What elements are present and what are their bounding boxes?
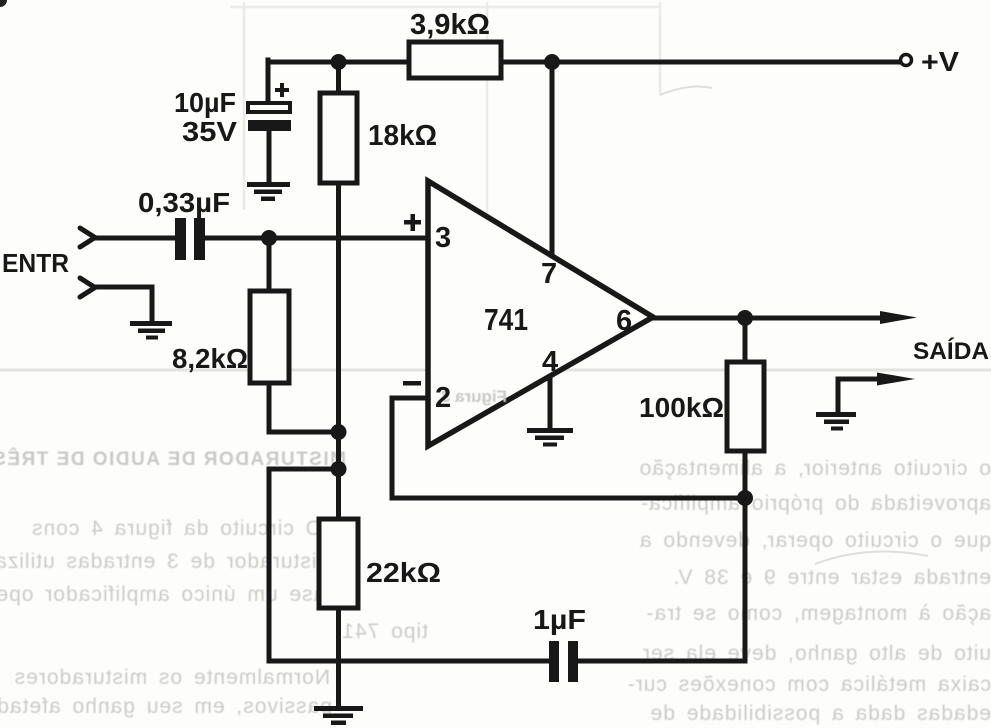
wire input2 to ground bbox=[94, 287, 152, 321]
wire 8.2k top lead bbox=[267, 238, 272, 291]
wire 1uF horizontal left bbox=[269, 659, 549, 664]
resistor 8.2k bbox=[172, 291, 289, 383]
bleed-through mirrored text left column bbox=[0, 448, 428, 718]
ground under 10uF bbox=[247, 182, 290, 201]
bleed-through figure lines (reverse page) bbox=[0, 2, 991, 370]
svg-text:741: 741 bbox=[484, 302, 528, 337]
wire 100k bottom lead bbox=[743, 451, 748, 498]
svg-text:tipo 741.: tipo 741. bbox=[334, 620, 428, 643]
svg-text:8,2kΩ: 8,2kΩ bbox=[172, 343, 248, 374]
wire output ground reference bbox=[838, 379, 880, 410]
svg-text:3,9kΩ: 3,9kΩ bbox=[410, 9, 490, 41]
svg-text:ação à montagem, como se tra-: ação à montagem, como se tra- bbox=[646, 602, 991, 625]
resistor 100k bbox=[639, 362, 764, 451]
node B dot bbox=[331, 461, 347, 477]
svg-text:aproveitada do próprio amplifi: aproveitada do próprio amplifica- bbox=[640, 492, 991, 515]
resistor 18k bbox=[320, 93, 437, 183]
capacitor 10uF electrolytic bbox=[174, 83, 291, 147]
faint scan scratches bbox=[660, 87, 928, 564]
wire input to pin3 bbox=[94, 236, 427, 241]
svg-text:ENTR: ENTR bbox=[2, 248, 69, 278]
pin 2 label bbox=[403, 381, 451, 414]
svg-text:entrada estar entre 9 e 38 V.: entrada estar entre 9 e 38 V. bbox=[673, 566, 991, 589]
svg-text:caixa metálica com conexões cu: caixa metálica com conexões cur- bbox=[627, 673, 991, 696]
svg-text:edadas dada a possibilidade de: edadas dada a possibilidade de bbox=[650, 702, 991, 725]
op-amp 741 bbox=[428, 181, 653, 446]
output arrow SAIDA bbox=[880, 311, 989, 365]
resistor 22k bbox=[319, 519, 441, 608]
svg-text:base um único amplificador ope: base um único amplificador opera bbox=[0, 583, 338, 606]
svg-text:+V: +V bbox=[921, 46, 959, 77]
pin 6 label bbox=[616, 305, 632, 337]
wire 100k top lead bbox=[743, 318, 748, 362]
wire pin7 drop bbox=[550, 62, 555, 257]
svg-text:3: 3 bbox=[435, 222, 451, 254]
bleed-through mirrored text right column bbox=[627, 457, 991, 725]
wire node B to left leg down bbox=[269, 469, 339, 661]
ground pin4 bbox=[527, 428, 573, 447]
wire output bbox=[655, 316, 885, 321]
svg-text:o circuito anterior, a aliment: o circuito anterior, a alimentação bbox=[639, 457, 991, 480]
node A dot bbox=[331, 424, 347, 440]
wire 22k bottom lead to ground bbox=[336, 608, 341, 706]
pin 7 label bbox=[541, 258, 557, 290]
pin 3 label bbox=[404, 214, 451, 254]
capacitor 1uF bbox=[533, 604, 586, 682]
node dot top pin7 junction bbox=[544, 54, 560, 70]
ground 22k bottom bbox=[314, 706, 363, 725]
wire 10uF bottom lead bbox=[267, 131, 272, 182]
svg-text:6: 6 bbox=[616, 305, 632, 337]
wire 8.2k bottom lead to node A bbox=[269, 383, 339, 432]
bleed-through caption figura 3 bbox=[441, 387, 507, 406]
node dot top 18k junction bbox=[331, 54, 347, 70]
output reference arrow bbox=[877, 373, 915, 386]
pin 4 label bbox=[542, 346, 558, 378]
svg-text:100kΩ: 100kΩ bbox=[639, 392, 724, 423]
input chevron 1 bbox=[80, 228, 95, 247]
svg-text:0,33µF: 0,33µF bbox=[138, 187, 230, 218]
ground input2 bbox=[130, 321, 172, 340]
svg-text:18kΩ: 18kΩ bbox=[368, 120, 437, 152]
svg-text:SAÍDA: SAÍDA bbox=[913, 337, 989, 365]
svg-text:35V: 35V bbox=[182, 116, 237, 147]
terminal +V bbox=[901, 46, 960, 77]
wire 18k bottom lead long vertical bbox=[336, 183, 341, 519]
svg-text:Normalmente os misturadores: Normalmente os misturadores bbox=[14, 666, 330, 689]
svg-text:O circuito da figura 4 cons: O circuito da figura 4 cons bbox=[31, 517, 322, 540]
ground output reference bbox=[816, 412, 856, 431]
resistor 3.9k bbox=[409, 9, 501, 78]
svg-text:1µF: 1µF bbox=[533, 604, 586, 635]
node dot feedback junction bbox=[737, 490, 753, 506]
svg-text:que o circuito operar, devendo: que o circuito operar, devendo a bbox=[639, 529, 991, 552]
svg-text:misturador de 3 entradas utili: misturador de 3 entradas utiliza bbox=[0, 550, 335, 573]
wire feedback from pin2 bbox=[392, 398, 745, 498]
capacitor 0.33uF bbox=[138, 187, 230, 260]
svg-text:passivos, em seu ganho afetado: passivos, em seu ganho afetado bbox=[0, 695, 332, 718]
wire 1uF horizontal right bbox=[578, 659, 745, 664]
scan blot top-left corner bbox=[0, 0, 7, 7]
input chevron 2 bbox=[80, 278, 95, 297]
wire pin4 down bbox=[548, 375, 553, 428]
node dot pin3 input junction bbox=[261, 230, 277, 246]
svg-text:22kΩ: 22kΩ bbox=[366, 557, 441, 588]
svg-text:10µF: 10µF bbox=[174, 87, 236, 118]
svg-text:2: 2 bbox=[435, 382, 451, 414]
node dot output junction bbox=[737, 310, 753, 326]
wire 18k top lead bbox=[336, 62, 341, 93]
wire right vertical below 100k bbox=[743, 498, 748, 661]
wire top rail left segment bbox=[268, 60, 409, 104]
svg-text:4: 4 bbox=[542, 346, 558, 378]
svg-text:7: 7 bbox=[541, 258, 557, 290]
wire top rail middle and to +V bbox=[501, 60, 899, 65]
